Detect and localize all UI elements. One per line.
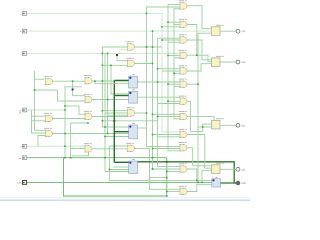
- wire stub C3 in3: [108, 114, 128, 116]
- wire bundle x168: [168, 5, 180, 151]
- wire D1 out -> FF1: [187, 6, 212, 29]
- wire y90: [35, 89, 58, 91]
- wire bundle x157: [158, 38, 180, 166]
- flip-flop FF3: [212, 118, 224, 129]
- junction: [104, 136, 106, 138]
- wire net b -> FF1: [27, 30, 212, 32]
- wire stub BR4 in3: [109, 169, 128, 171]
- wire A1 out -> B1: [52, 80, 85, 82]
- wire vertical x105: [104, 53, 106, 171]
- and-gate C2: [126, 58, 134, 67]
- wire stub C3 in2: [105, 112, 128, 114]
- wire D11 out -> BR5 join: [187, 169, 197, 180]
- wire x202 FF3 link: [190, 124, 202, 131]
- junction: [157, 81, 159, 83]
- input pin B: [19, 108, 26, 115]
- wire stub BR4 in2: [113, 166, 129, 168]
- wire D10 out -> FF4: [187, 148, 212, 166]
- and-gate C3: [126, 107, 134, 116]
- wire A2 out -> B3: [52, 118, 85, 120]
- wire vertical x70: [70, 123, 72, 158]
- junction: [152, 63, 154, 65]
- wire B1 out branch -> BR1 in3: [95, 81, 129, 84]
- junction: [107, 53, 109, 55]
- wire B1 out -> BR1: [92, 80, 129, 82]
- wire x111 to BR2 in1: [111, 65, 129, 94]
- wire C1 out: [135, 46, 163, 48]
- and-gate C1: [126, 41, 134, 50]
- wire C2 out: [135, 63, 153, 65]
- junction: [202, 126, 204, 128]
- wire FF1 out -> pin: [221, 30, 237, 32]
- and-gate D1: [179, 0, 187, 9]
- wire C4 out: [135, 148, 150, 150]
- wire C2 in3: [102, 64, 127, 66]
- wire vertical x31 to A3: [32, 110, 46, 133]
- wire x149 down to D12: [150, 149, 181, 190]
- wire FF3 in2: [198, 126, 212, 128]
- wire stub D4 in2: [168, 55, 180, 57]
- wire stub C1 in3: [120, 48, 128, 50]
- junction: [72, 80, 74, 82]
- junction: [161, 39, 163, 41]
- output pin acout: [236, 60, 246, 64]
- wire net wclk long: [27, 181, 212, 183]
- wire D6 out: [187, 83, 198, 85]
- and-gate A2: [44, 113, 52, 122]
- wire stub D9 in2: [153, 134, 181, 136]
- output pin po2: [236, 123, 246, 127]
- wire bus vertical: [113, 80, 115, 162]
- wire FF2 out -> pin: [221, 61, 237, 63]
- wire FF4 out -> pin: [221, 168, 237, 170]
- and-gate B1: [84, 75, 92, 84]
- junction: [197, 182, 199, 184]
- wire stub D5 in1: [158, 68, 180, 70]
- register BR1: [129, 74, 138, 88]
- wire bus BR4: [114, 161, 128, 163]
- wire stub D7 in3: [158, 103, 180, 105]
- junction: [166, 191, 168, 193]
- wire vertical x166: [166, 158, 168, 196]
- wire vertical x65: [64, 87, 66, 158]
- wire FF3 out -> pin: [221, 124, 237, 126]
- bottom border line light: [0, 196, 250, 199]
- junction: [107, 99, 109, 101]
- junction: [102, 120, 104, 122]
- wire stub D3 in2: [162, 39, 180, 41]
- wire wclk riser FF4: [202, 171, 212, 183]
- and-gate C4: [126, 143, 134, 152]
- junction: [166, 171, 168, 173]
- junction: [152, 114, 154, 116]
- wire stub BR4 in4: [105, 171, 129, 173]
- wire stub D4 in3: [174, 57, 180, 59]
- wire D8 out -> FF3 top: [187, 117, 214, 121]
- dark mark: [72, 89, 74, 91]
- wire under B4: [72, 152, 89, 156]
- wire stub D6 in3: [174, 85, 180, 87]
- wire y121: [102, 120, 157, 122]
- dark junction: [113, 120, 115, 122]
- wire net d -> B4: [27, 145, 86, 147]
- output pin po1: [236, 167, 246, 171]
- wire BR2 out -> D7: [137, 96, 180, 98]
- wire stub A2 in3: [32, 120, 46, 122]
- wire bus BR3: [114, 131, 128, 133]
- input pin a: [20, 12, 26, 16]
- wire FF3 in1: [203, 123, 212, 125]
- wire x102 C1 in2 / BR3 in1: [102, 47, 128, 127]
- wire x117 to C2 in1: [117, 53, 128, 60]
- wire y177: [150, 177, 167, 179]
- wire vertical x107: [107, 53, 109, 133]
- wire net a -> D9: [27, 13, 181, 131]
- junction: [152, 134, 154, 136]
- wire stub D2 in3: [162, 26, 180, 28]
- junction: [109, 169, 111, 171]
- junction: [102, 65, 104, 67]
- junction: [152, 168, 154, 170]
- junction: [167, 101, 169, 103]
- wire stub D7 in2: [168, 100, 180, 102]
- junction: [152, 157, 154, 159]
- junction: [167, 83, 169, 85]
- wire C3 out: [135, 112, 147, 114]
- junction: [64, 105, 66, 107]
- junction: [196, 180, 198, 182]
- wire net B: [27, 109, 66, 111]
- input pin wclk: [17, 181, 26, 185]
- and-gate D12: [179, 186, 187, 195]
- wire stub D11 in3: [167, 170, 180, 172]
- junction: [146, 112, 148, 114]
- wire D5 out -> FF2: [187, 64, 212, 71]
- wire stub D5 in3: [174, 72, 180, 74]
- wire bundle x146: [147, 7, 181, 147]
- register BR5: [212, 177, 221, 187]
- junction: [110, 65, 112, 67]
- and-gate D5: [179, 65, 187, 74]
- wire stub D8 in2: [158, 116, 180, 118]
- input pin c: [20, 52, 26, 56]
- svg-text:wd0: wd0: [242, 183, 247, 185]
- and-gate D7: [179, 96, 187, 105]
- wire y123: [71, 122, 88, 124]
- wire stub D3 in3: [168, 41, 180, 43]
- wire stub A1 in1: [35, 78, 45, 80]
- junction: [146, 13, 148, 15]
- wire net en long: [27, 157, 167, 159]
- wire bus BR5 out: [220, 182, 237, 184]
- flip-flop FF1: [212, 25, 224, 36]
- wire stub D9 in3: [158, 136, 180, 138]
- output pin pcout: [236, 29, 246, 33]
- wire stub B4 in2: [71, 148, 85, 150]
- junction: [64, 145, 66, 147]
- junction: [64, 109, 66, 111]
- input pin d: [20, 144, 26, 148]
- wire D7 out: [187, 101, 190, 131]
- wire stub D12 in2: [167, 191, 180, 193]
- and-gate A3: [44, 128, 52, 137]
- wire y86: [65, 86, 82, 88]
- and-gate D10: [179, 142, 187, 151]
- wire x109 down to BR5: [109, 146, 211, 180]
- and-gate A1: [44, 76, 52, 85]
- output pin wd0: [236, 181, 246, 185]
- wire stub D2 in2: [174, 24, 180, 26]
- wire B2 out -> BR2: [92, 99, 129, 101]
- dark junction: [166, 161, 168, 163]
- junction: [102, 80, 104, 82]
- register BR3: [129, 123, 138, 139]
- wire D3 out -> FF2: [187, 40, 212, 60]
- junction: [104, 157, 106, 159]
- and-gate B2: [84, 94, 92, 103]
- wire stub D5 in2: [162, 70, 180, 72]
- wire stub D6 in2: [168, 83, 180, 85]
- wire B4 out -> C4: [92, 148, 127, 150]
- wire bundle x152: [153, 31, 181, 169]
- wire D2 out: [187, 25, 197, 56]
- junction: [201, 182, 203, 184]
- wire B3 out -> C3: [92, 116, 128, 118]
- wire stub A2 in1: [32, 115, 46, 117]
- junction: [167, 55, 169, 57]
- wire stub FF1 in3: [198, 32, 212, 34]
- and-gate B4: [84, 143, 92, 152]
- junction: [64, 133, 66, 135]
- junction: [104, 126, 106, 128]
- junction: [87, 122, 89, 124]
- register BR4: [129, 159, 138, 173]
- and-gate D9: [179, 129, 187, 138]
- wire stub D8 in1: [153, 113, 181, 115]
- bottom border line blue: [0, 200, 250, 201]
- and-gate D6: [179, 79, 187, 88]
- input pin b: [20, 29, 26, 33]
- input pin en: [19, 156, 27, 160]
- flip-flop FF2: [212, 56, 224, 67]
- junction: [94, 80, 96, 82]
- wire D12 out -> BR5: [187, 185, 212, 192]
- wire net c -> D4: [27, 52, 181, 54]
- junction: [152, 46, 154, 48]
- wire bottom loop x63: [64, 158, 167, 196]
- junction: [161, 26, 163, 28]
- wire bus BR1: [114, 79, 128, 81]
- junction: [34, 89, 36, 91]
- junction: [197, 83, 199, 85]
- junction: [157, 68, 159, 70]
- and-gate D2: [179, 19, 187, 28]
- and-gate D3: [179, 34, 187, 43]
- junction: [152, 168, 154, 170]
- junction: [64, 157, 66, 159]
- junction: [157, 116, 159, 118]
- junction: [166, 195, 168, 197]
- junction: [102, 53, 104, 55]
- wire bundle x174: [174, 9, 180, 119]
- wire BR3 out stub: [137, 127, 146, 129]
- wire vertical x34 to A3: [35, 71, 46, 130]
- wire x72 to B2 in1: [73, 81, 85, 96]
- flip-flop FF4: [212, 163, 224, 174]
- junction: [102, 110, 104, 112]
- wire D4 out -> FF2: [187, 55, 212, 62]
- and-gate D11: [179, 163, 187, 172]
- wire riser to A3 in3: [38, 136, 45, 147]
- and-gate D4: [179, 50, 187, 59]
- junction: [152, 148, 154, 150]
- and-gate B3: [84, 111, 92, 120]
- junction: [152, 30, 154, 32]
- dark mark: [116, 54, 118, 56]
- wire bus BR2: [114, 95, 128, 97]
- junction: [196, 54, 198, 56]
- and-gate D8: [179, 111, 187, 120]
- wire A3 out -> BR3: [52, 133, 128, 135]
- wire y106: [65, 105, 79, 107]
- junction: [70, 157, 72, 159]
- wire stub C3 in1: [102, 110, 127, 112]
- wire D9 out -> FF4: [187, 135, 212, 169]
- wire bus BR4 out -> wd: [137, 162, 237, 183]
- wire stub BR3 in4: [105, 136, 129, 138]
- wire stub D10 in2: [153, 148, 181, 150]
- wire stub D2 in1: [168, 21, 180, 23]
- wire x79 to B3 in1: [79, 106, 85, 114]
- wire C4 in1: [109, 145, 127, 147]
- register BR2: [129, 89, 138, 103]
- junction: [107, 133, 109, 135]
- wire BR1 out -> D6: [137, 81, 180, 83]
- junction: [146, 46, 148, 48]
- junction: [173, 73, 175, 75]
- wire x57 to B2 in3: [58, 90, 86, 101]
- junction: [166, 177, 168, 179]
- junction: [167, 21, 169, 23]
- wire vertical x198: [197, 33, 199, 182]
